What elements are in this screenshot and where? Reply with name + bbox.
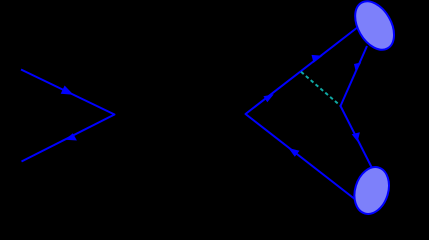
dashed gluon line from node A to node B: [301, 72, 341, 106]
arrow on lower line pointing away from vertex: [65, 133, 77, 140]
wire: right diagram long antiquark line from vertex V to bottom blob: [246, 114, 357, 200]
wire: antiquark line from top blob down to node B: [341, 46, 368, 106]
arrow on upper line pointing to vertex: [61, 86, 74, 95]
top hadron blob ellipse: [347, 0, 402, 57]
wire: quark line from node B down to bottom blob: [341, 106, 373, 169]
arrow on that line pointing down to B: [354, 62, 361, 71]
arrow on quark line segment 1: [263, 94, 273, 102]
wire: right diagram quark line from vertex V to top blob: [246, 27, 359, 114]
wire: left diagram lower fermion line (e+): [22, 115, 115, 162]
arrow on quark line segment 2: [312, 55, 323, 63]
wire: left diagram upper fermion line (e-): [21, 70, 115, 115]
node: left diagram vertex: [114, 114, 116, 116]
arrow on that line pointing down to bottom blob: [352, 132, 360, 142]
bottom hadron blob ellipse: [349, 163, 395, 219]
node: right diagram vertex V: [245, 113, 247, 115]
arrow on long line pointing back to vertex V: [288, 148, 299, 157]
node B junction: [340, 105, 342, 107]
